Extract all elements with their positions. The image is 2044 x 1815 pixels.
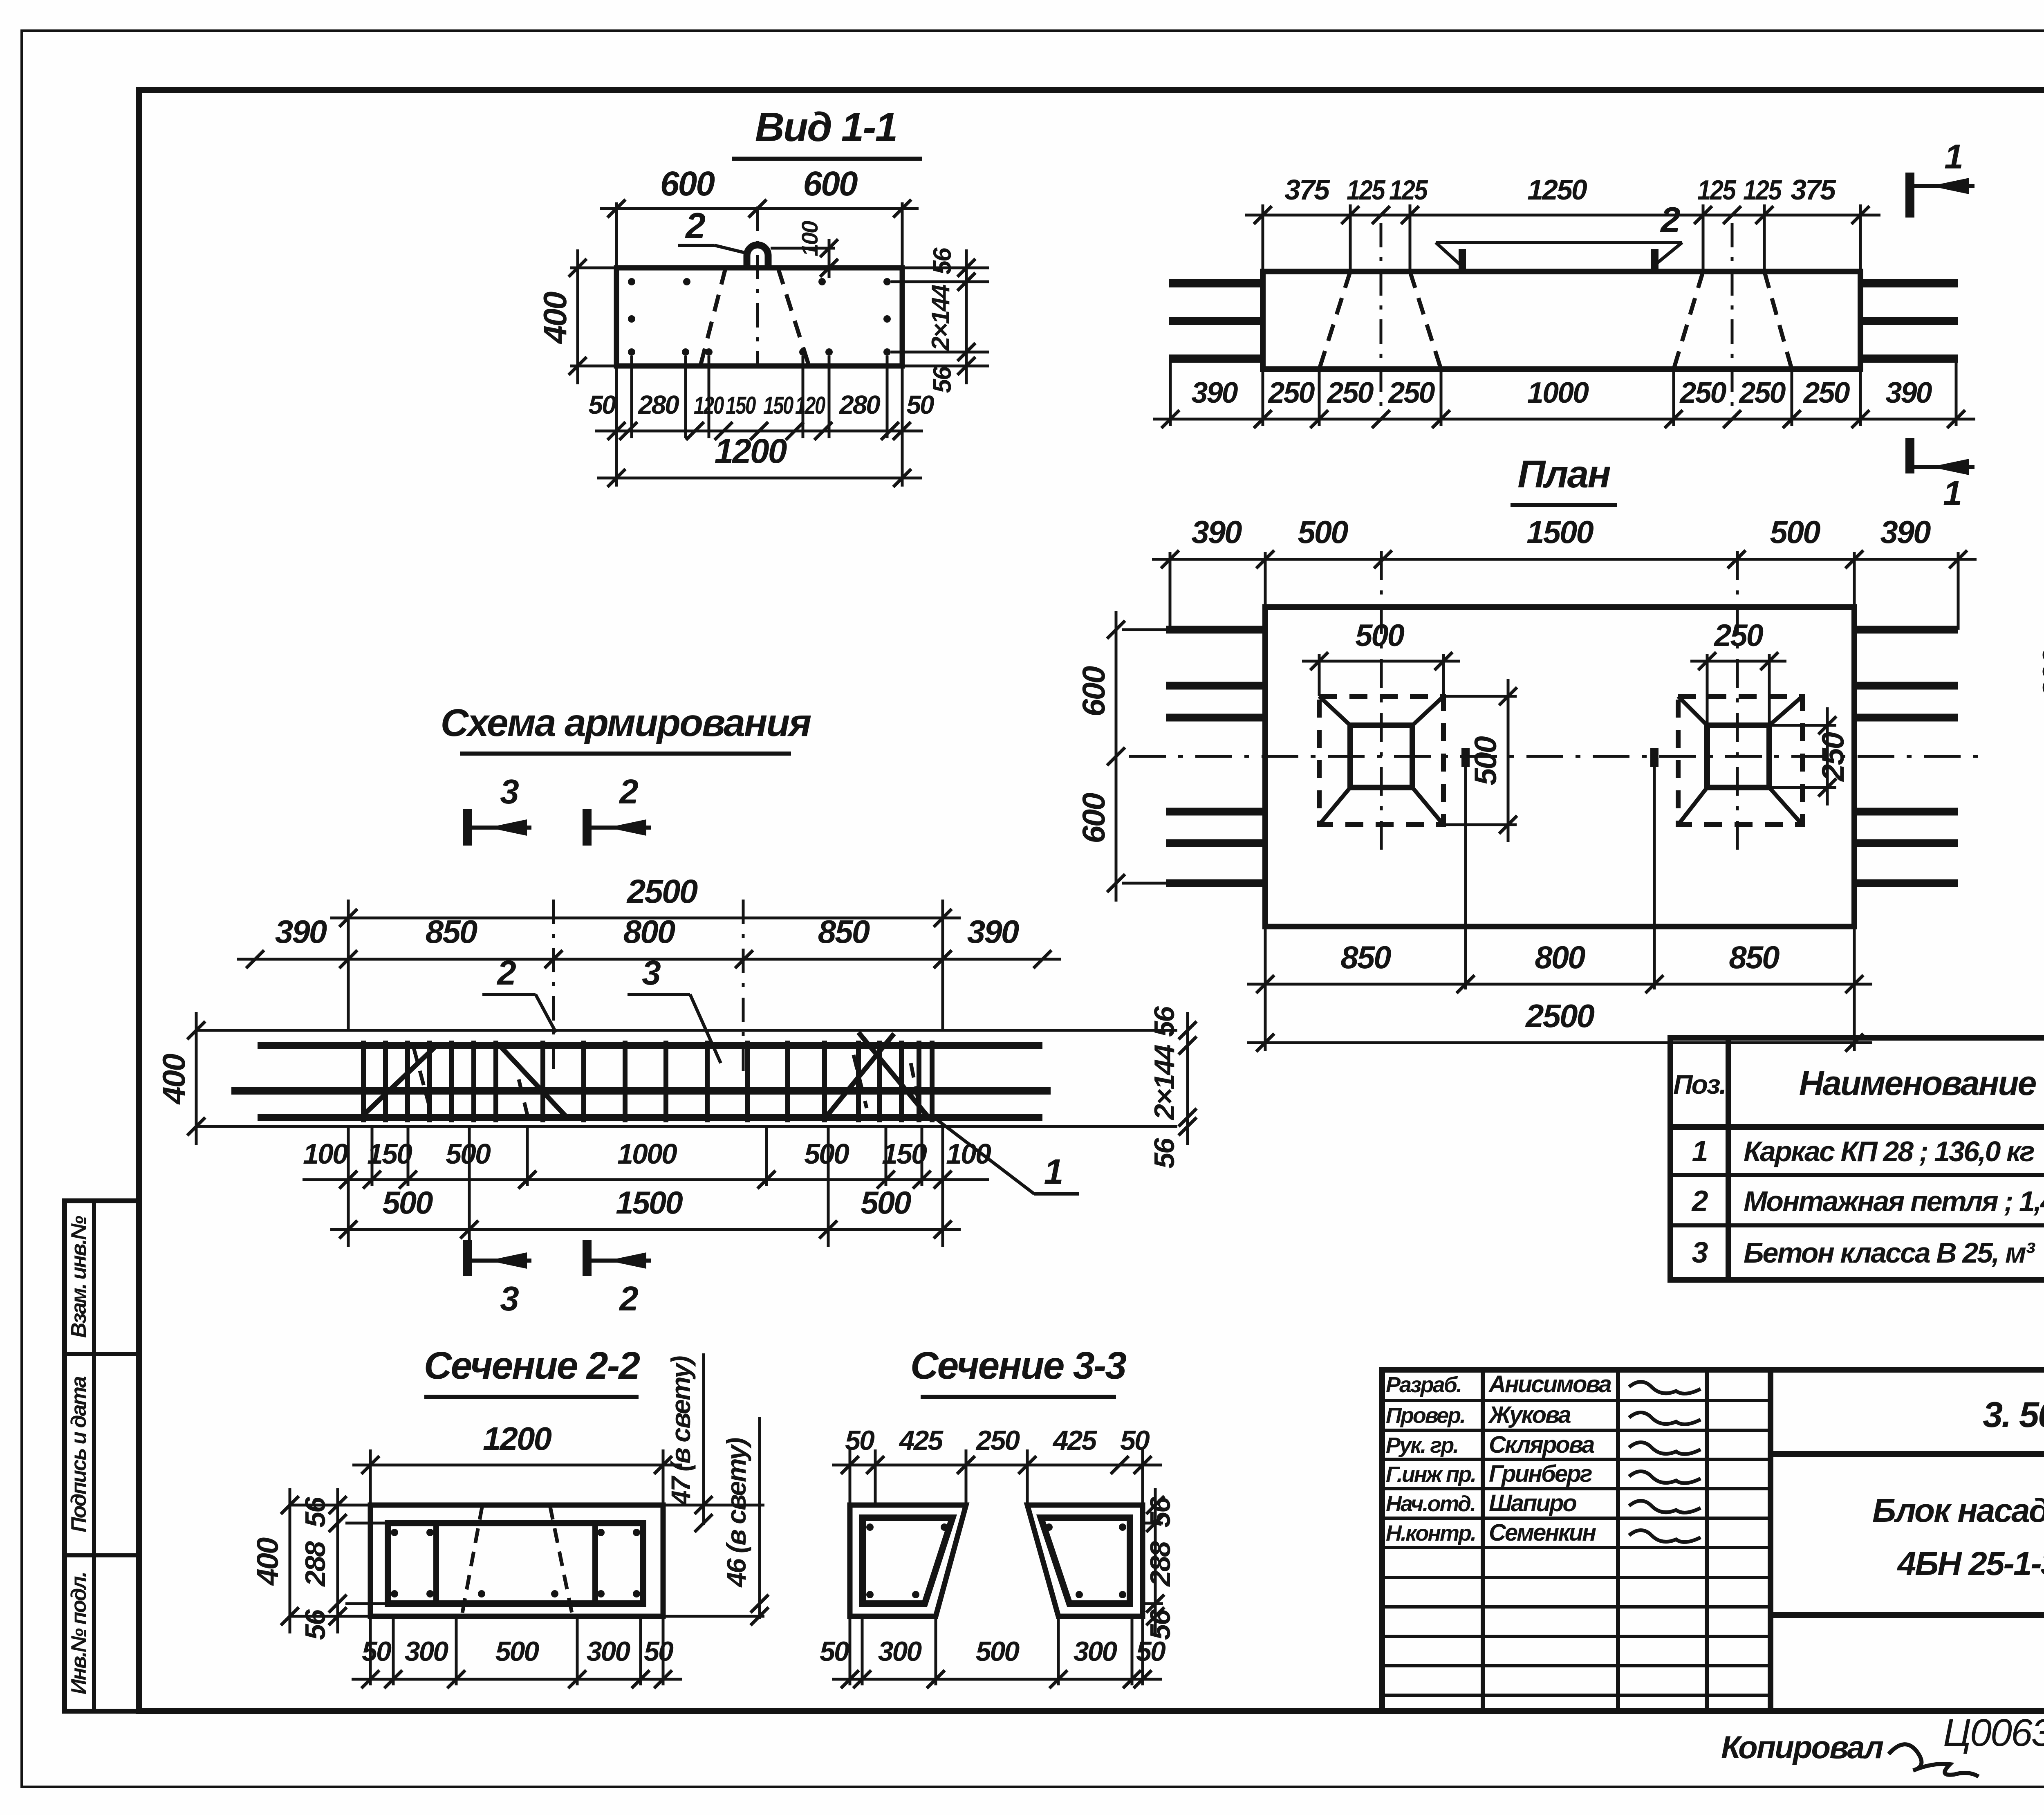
svg-text:3: 3 (500, 1279, 519, 1318)
section 2-2 rebar dots top (391, 1529, 398, 1536)
svg-text:Подпись и дата: Подпись и дата (67, 1376, 91, 1532)
svg-text:50: 50 (1120, 1425, 1150, 1456)
svg-text:56: 56 (1148, 1006, 1180, 1037)
svg-text:2×144: 2×144 (927, 285, 955, 351)
svg-text:850: 850 (818, 913, 870, 950)
elevation pile taper hidden lines left (1319, 271, 1350, 369)
specification table frame (1670, 1038, 2044, 1280)
svg-text:1250: 1250 (1527, 174, 1587, 206)
scheme bottom dimension row 100-150-500-1000-500-150-100 (303, 1178, 989, 1181)
plan left pile axis (1380, 551, 1383, 855)
svg-text:Нач.отд.: Нач.отд. (1386, 1492, 1475, 1516)
svg-text:300: 300 (405, 1636, 449, 1667)
view 1-1 title underline (732, 157, 922, 161)
svg-text:50: 50 (820, 1636, 849, 1667)
svg-text:3: 3 (642, 953, 661, 992)
svg-text:1200: 1200 (483, 1420, 551, 1457)
left margin block row lines (65, 1352, 139, 1356)
section 3-3 left stirrup (863, 1518, 953, 1604)
elevation right step line (1955, 359, 1958, 426)
svg-text:50: 50 (362, 1636, 392, 1667)
scheme pile taper hidden lines (414, 1048, 432, 1115)
elevation left step line (1169, 359, 1172, 426)
scheme concrete top line (196, 1029, 1177, 1032)
svg-text:800: 800 (623, 913, 675, 950)
svg-text:390: 390 (1191, 514, 1242, 550)
scheme stirrups middle group (540, 1041, 545, 1122)
scheme middle bars (231, 1087, 1051, 1095)
view 1-1 bottom extension lines (630, 356, 633, 438)
view 1-1 centre axis (756, 206, 759, 366)
svg-text:500: 500 (382, 1185, 433, 1220)
svg-text:250: 250 (1802, 377, 1850, 409)
svg-text:850: 850 (426, 913, 477, 950)
view 1-1 top dimension 600+600 (615, 202, 618, 268)
svg-text:Семенкин: Семенкин (1489, 1519, 1596, 1546)
scheme overall dimension 2500 (347, 900, 350, 1030)
svg-text:300: 300 (587, 1636, 631, 1667)
svg-text:100: 100 (797, 221, 823, 256)
scheme right dimension 56 2x144 56 (1186, 1012, 1189, 1145)
view 1-1 bottom dimension row 50-280-120-150-150-120-280-50 (595, 430, 923, 433)
section cut marker 1 bottom (1905, 438, 1914, 473)
view 1-1 overall dimension 1200 (597, 477, 922, 480)
svg-text:46 (в свету): 46 (в свету) (721, 1438, 751, 1588)
title block signatures scrawls (1629, 1382, 1701, 1394)
svg-text:56: 56 (928, 247, 957, 274)
svg-text:250: 250 (1679, 377, 1726, 409)
view 1-1 top edge extensions (570, 267, 616, 269)
svg-text:Схема армирования: Схема армирования (441, 701, 811, 745)
svg-text:288: 288 (1144, 1541, 1176, 1587)
svg-text:2: 2 (619, 772, 638, 811)
svg-text:1: 1 (1943, 474, 1961, 512)
specification table row lines (1670, 1124, 2044, 1130)
elevation block outline (1263, 271, 1860, 369)
svg-text:1000: 1000 (617, 1138, 677, 1170)
svg-text:Наименование: Наименование (1799, 1064, 2036, 1102)
plan rebar stub right (1650, 748, 1659, 767)
plan left pile hole outline hidden (1319, 696, 1443, 825)
svg-text:1: 1 (1044, 1152, 1062, 1191)
svg-text:2: 2 (1691, 1185, 1708, 1218)
svg-text:850: 850 (1340, 939, 1391, 975)
plan main axis (1129, 755, 1983, 758)
svg-text:56: 56 (299, 1609, 331, 1640)
section 2-2 pile taper hidden lines (462, 1505, 482, 1615)
svg-text:Инв.№ подл.: Инв.№ подл. (67, 1573, 91, 1694)
plan left dimension 600+600 (1122, 628, 1167, 631)
plan block outline (1265, 607, 1854, 927)
view 1-1 right extensions for 56 dims (891, 280, 989, 283)
svg-text:500: 500 (861, 1185, 911, 1220)
svg-text:250: 250 (1326, 377, 1374, 409)
section 2-2 title underline (424, 1395, 639, 1399)
svg-text:425: 425 (899, 1425, 944, 1456)
svg-text:2: 2 (685, 205, 706, 246)
plan right protruding bars (1854, 626, 1958, 634)
svg-text:1: 1 (1944, 137, 1962, 176)
view 1-1 left dimension 400 (576, 249, 579, 384)
plan right pile corner diagonals (1678, 696, 1707, 725)
svg-text:390: 390 (1885, 377, 1932, 409)
svg-text:Г.инж пр.: Г.инж пр. (1386, 1462, 1475, 1487)
plan left pile vertical dimension 500 (1443, 695, 1517, 698)
left margin block frame (65, 1201, 139, 1711)
svg-text:280: 280 (839, 390, 880, 420)
svg-text:3: 3 (500, 772, 519, 811)
svg-text:500: 500 (446, 1138, 491, 1170)
section 2-2 top dimension 1200 (369, 1449, 372, 1505)
view 1-1 right dimension 56 2x144 56 (965, 249, 968, 384)
plan right pile vertical dimension 250 (1769, 724, 1836, 727)
svg-text:56: 56 (1148, 1137, 1180, 1169)
svg-text:Разраб.: Разраб. (1386, 1373, 1461, 1397)
scheme left dimension 400 (195, 1012, 198, 1145)
title block signature table columns (1481, 1370, 1485, 1711)
view 1-1 lifting loop (747, 245, 768, 268)
title block signature table rows (1382, 1399, 1771, 1402)
svg-text:850: 850 (1729, 939, 1780, 975)
section cut marker 1 top (1905, 173, 1914, 218)
scheme top chord bar (258, 1042, 1042, 1049)
svg-text:150: 150 (763, 392, 793, 419)
svg-text:Копировал: Копировал (1721, 1729, 1884, 1765)
svg-text:1: 1 (1692, 1135, 1707, 1168)
svg-text:1500: 1500 (1526, 514, 1594, 550)
section 2-2 surface extensions (290, 1504, 370, 1507)
svg-text:500: 500 (804, 1138, 849, 1170)
plan overall dimension 2500 (1247, 1041, 1872, 1044)
elevation bottom extension lines (1262, 369, 1264, 426)
elevation pile axes (1380, 223, 1383, 411)
svg-text:400: 400 (156, 1054, 192, 1105)
plan right pile axis (1736, 551, 1739, 855)
scheme pile axes (552, 900, 555, 1071)
section 2-2 concrete outline (370, 1505, 663, 1616)
svg-text:2: 2 (496, 953, 516, 992)
svg-text:250: 250 (975, 1425, 1020, 1456)
section 2-2 bottom dimension row 50-300-500-300-50 (352, 1678, 682, 1681)
svg-text:125: 125 (1347, 175, 1386, 206)
scheme stirrups right group (785, 1041, 790, 1122)
scheme section marker 2 top (583, 809, 592, 846)
plan bottom extension lines (1264, 927, 1267, 1051)
svg-text:56: 56 (299, 1496, 331, 1528)
svg-text:Гринберг: Гринберг (1489, 1461, 1592, 1487)
view 1-1 rebar dots bottom row (628, 348, 635, 356)
svg-text:300: 300 (878, 1636, 922, 1667)
svg-text:1000: 1000 (1527, 377, 1589, 409)
svg-text:4БН 25-1-3: 4БН 25-1-3 (1897, 1545, 2044, 1582)
svg-text:290: 290 (2037, 648, 2044, 699)
svg-text:390: 390 (1880, 514, 1931, 550)
svg-text:500: 500 (1355, 618, 1405, 653)
plan right pile hole outline hidden (1678, 696, 1802, 825)
section 2-2 inner stirrup legs (433, 1523, 439, 1604)
scheme stirrups left group (361, 1041, 366, 1122)
elevation top dimension row 375-125-125-1250-125-125-375 (1245, 214, 1880, 217)
svg-text:250: 250 (1816, 732, 1851, 782)
section 3-3 bottom dimension row 50-300-500-300-50 (832, 1678, 1162, 1681)
svg-text:280: 280 (638, 390, 679, 420)
svg-text:Блок насадки: Блок насадки (1872, 1492, 2044, 1529)
svg-text:50: 50 (845, 1425, 875, 1456)
plan left pile top dimension 500 (1318, 654, 1321, 696)
svg-text:600: 600 (803, 164, 857, 203)
elevation loop stubs (1459, 249, 1466, 271)
svg-text:56: 56 (928, 366, 957, 393)
svg-text:150: 150 (882, 1138, 927, 1170)
section 3-3 right dimension 56-288-56 (1143, 1522, 1163, 1525)
title block name cell (1771, 1612, 2044, 1618)
view 1-1 loop height dim 100 (771, 247, 835, 250)
plan top dimension extensions (1264, 552, 1267, 607)
scheme cage leader label 1 (934, 1117, 1034, 1194)
elevation right protruding bars (1860, 279, 1958, 287)
scheme bent bar diagonals (363, 1045, 437, 1115)
svg-text:600: 600 (660, 164, 715, 203)
section 2-2 left dimension 56-288-56 (345, 1522, 388, 1525)
svg-text:2500: 2500 (626, 873, 698, 910)
section 3-3 title underline (921, 1395, 1116, 1399)
svg-text:500: 500 (1770, 514, 1820, 550)
svg-text:1500: 1500 (616, 1185, 683, 1220)
section 2-2 stirrup outline (388, 1523, 643, 1604)
section 2-2 dimension 400 (289, 1488, 291, 1633)
svg-text:Рук. гр.: Рук. гр. (1386, 1433, 1458, 1458)
svg-text:600: 600 (1076, 666, 1112, 717)
svg-text:2: 2 (619, 1279, 638, 1318)
svg-text:Поз.: Поз. (1673, 1069, 1726, 1099)
svg-text:2500: 2500 (1525, 998, 1594, 1034)
svg-text:250: 250 (1267, 377, 1315, 409)
svg-text:400: 400 (537, 292, 573, 344)
svg-text:Вид 1-1: Вид 1-1 (755, 104, 896, 150)
svg-text:1200: 1200 (715, 432, 787, 470)
svg-text:120: 120 (694, 392, 724, 419)
view 1-1 rebar dots top row (628, 278, 635, 285)
section 2-2 cover dim 46 v svetu (758, 1417, 761, 1619)
elevation pile taper hidden lines right (1674, 271, 1703, 369)
svg-text:Взам. инв.№: Взам. инв.№ (67, 1216, 91, 1338)
section 3-3 left concrete piece (850, 1505, 966, 1616)
svg-text:Склярова: Склярова (1489, 1431, 1594, 1458)
svg-text:3: 3 (1692, 1236, 1708, 1269)
svg-text:288: 288 (299, 1541, 331, 1587)
svg-text:800: 800 (1535, 939, 1585, 975)
svg-text:500: 500 (495, 1636, 540, 1667)
svg-text:Шапиро: Шапиро (1489, 1490, 1576, 1517)
svg-text:Монтажная петля ; 1,4 кг: Монтажная петля ; 1,4 кг (1744, 1185, 2044, 1217)
svg-text:2×144: 2×144 (1148, 1045, 1180, 1121)
svg-text:500: 500 (1468, 736, 1503, 785)
svg-text:600: 600 (1076, 793, 1112, 844)
plan left pile head outline (1350, 725, 1412, 787)
svg-text:250: 250 (1387, 377, 1435, 409)
svg-text:Провер.: Провер. (1386, 1403, 1465, 1428)
view 1-1 rebar dots middle row (628, 315, 635, 323)
scheme bottom chord bar (258, 1114, 1042, 1121)
svg-text:Бетон класса В 25, м³: Бетон класса В 25, м³ (1744, 1237, 2035, 1269)
section 3-3 right stirrup (1041, 1518, 1130, 1604)
svg-text:50: 50 (644, 1636, 674, 1667)
section 3-3 rebar dots right (1045, 1523, 1053, 1531)
scheme bottom dimension row 500-1500-500 (330, 1228, 961, 1231)
svg-text:390: 390 (1191, 377, 1238, 409)
scheme title underline (460, 752, 791, 756)
svg-text:400: 400 (251, 1537, 285, 1586)
specification table column lines (1726, 1038, 1731, 1280)
view 1-1 pile taper hidden lines (701, 268, 726, 365)
svg-text:50: 50 (1136, 1636, 1166, 1667)
section 2-2 rebar dots bottom (391, 1590, 398, 1597)
plan right pile head outline (1707, 725, 1769, 787)
svg-text:План: План (1517, 453, 1610, 496)
view 1-1 block outline (616, 268, 902, 366)
plan bottom dimension row 850-800-850 (1247, 983, 1872, 986)
scheme section marker 3 bottom (463, 1240, 472, 1276)
svg-text:Сечение 2-2: Сечение 2-2 (424, 1344, 640, 1387)
svg-text:50: 50 (906, 390, 934, 420)
elevation left protruding bars (1169, 279, 1263, 287)
plan left pile corner diagonals (1319, 696, 1350, 725)
elevation bottom dimension row 390-250-250-250-1000-250-250-250-390 (1153, 418, 1975, 421)
section 3-3 top dimension row 50-425-250-425-50 (832, 1464, 1162, 1467)
elevation loop leader and label 2 (1436, 241, 1682, 244)
scheme bottom extension lines (371, 1127, 374, 1186)
left margin block column line (92, 1201, 96, 1711)
scheme concrete bottom line (196, 1125, 1177, 1128)
section 3-3 right concrete piece (1027, 1505, 1143, 1616)
svg-text:375: 375 (1791, 174, 1836, 206)
plan title underline (1511, 503, 1617, 507)
svg-text:Жукова: Жукова (1488, 1402, 1571, 1428)
svg-text:125: 125 (1697, 175, 1737, 206)
svg-text:50: 50 (588, 390, 616, 420)
svg-text:120: 120 (795, 392, 825, 419)
svg-text:250: 250 (1713, 618, 1764, 653)
plan left protruding bars (1166, 626, 1265, 634)
svg-text:Анисимова: Анисимова (1488, 1371, 1611, 1398)
svg-text:390: 390 (275, 913, 327, 950)
svg-text:47 (в свету): 47 (в свету) (666, 1356, 696, 1506)
svg-text:250: 250 (1738, 377, 1786, 409)
svg-text:425: 425 (1052, 1425, 1098, 1456)
plan rebar stub left (1461, 748, 1470, 767)
svg-text:125: 125 (1389, 175, 1428, 206)
svg-text:500: 500 (1298, 514, 1348, 550)
plan top dimension row 390-500-1500-500-390 (1152, 558, 1977, 561)
svg-text:56: 56 (1144, 1496, 1176, 1528)
scheme section marker 3 top (463, 809, 472, 846)
svg-text:Н.контр.: Н.контр. (1386, 1521, 1475, 1546)
svg-text:150: 150 (726, 392, 756, 419)
scheme section marker 2 bottom (583, 1240, 592, 1276)
scheme dimension row 390-850-800-850-390 (237, 958, 1061, 961)
title block frame (1382, 1370, 2044, 1711)
svg-text:Ц00632-03: Ц00632-03 (1943, 1711, 2044, 1754)
svg-text:390: 390 (967, 913, 1019, 950)
section 3-3 bottom extensions (849, 1617, 852, 1685)
svg-text:2: 2 (1660, 200, 1681, 240)
plan right pile top dimension 250 (1706, 654, 1709, 725)
svg-text:500: 500 (976, 1636, 1020, 1667)
section 2-2 bottom extensions (369, 1617, 372, 1685)
svg-text:Каркас КП 28 ; 136,0 кг: Каркас КП 28 ; 136,0 кг (1744, 1135, 2034, 1167)
svg-text:100: 100 (303, 1138, 348, 1170)
svg-text:150: 150 (367, 1138, 412, 1170)
svg-text:375: 375 (1284, 174, 1330, 206)
svg-text:300: 300 (1074, 1636, 1118, 1667)
svg-text:125: 125 (1743, 175, 1782, 206)
title block document number (1771, 1451, 2044, 1457)
section 3-3 top dimension extensions (849, 1449, 852, 1505)
svg-text:56: 56 (1144, 1609, 1176, 1640)
section 3-3 rebar dots left (866, 1523, 874, 1531)
section 2-2 cover dim 47 v svetu (702, 1353, 705, 1525)
svg-text:Сечение 3-3: Сечение 3-3 (910, 1344, 1126, 1387)
elevation top dimension extensions (1262, 204, 1264, 271)
svg-text:3. 503.1 - 79.2 - 022: 3. 503.1 - 79.2 - 022 (1983, 1394, 2044, 1435)
